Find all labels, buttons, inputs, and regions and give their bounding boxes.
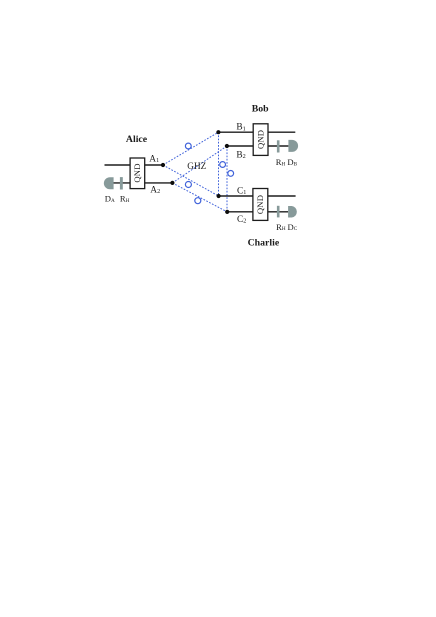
svg-text:Alice: Alice [126, 134, 148, 145]
svg-text:A1: A1 [149, 154, 159, 164]
svg-text:C1: C1 [237, 186, 246, 196]
svg-text:Charlie: Charlie [248, 238, 280, 249]
svg-text:DA: DA [105, 194, 115, 204]
svg-text:RH: RH [120, 194, 130, 204]
svg-text:B1: B1 [236, 123, 245, 133]
svg-text:RH: RH [276, 157, 286, 167]
svg-text:QND: QND [256, 130, 266, 149]
svg-text:RH: RH [276, 222, 286, 232]
svg-text:QND: QND [255, 195, 265, 214]
svg-text:GHZ: GHZ [187, 161, 206, 171]
svg-text:QND: QND [132, 163, 142, 182]
svg-text:B2: B2 [236, 150, 245, 160]
svg-text:A2: A2 [150, 185, 160, 195]
svg-text:DC: DC [288, 222, 298, 232]
svg-text:DB: DB [287, 157, 297, 167]
svg-text:Bob: Bob [252, 103, 269, 114]
svg-text:C2: C2 [237, 215, 246, 225]
